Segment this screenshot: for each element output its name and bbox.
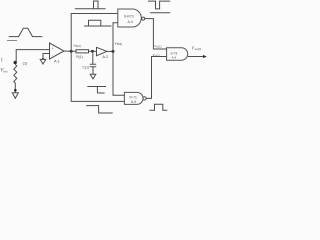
svg-text:-: - bbox=[52, 52, 54, 57]
wire comparator lower input to ground bbox=[43, 54, 50, 59]
waveform annotation (step down, below G2 lower input) bbox=[86, 106, 113, 113]
svg-text:B(1): B(1) bbox=[76, 44, 81, 48]
capacitor C(1) bbox=[92, 51, 94, 64]
waveform annotation vB1 (narrow pulse, top) bbox=[75, 1, 106, 9]
nand gate G3 (output) bbox=[167, 48, 188, 60]
label A-2 bbox=[103, 55, 109, 59]
waveform annotation G2 output (step up, bottom right) bbox=[150, 104, 168, 110]
op-amp A-1 bbox=[50, 43, 65, 59]
svg-text:C(1): C(1) bbox=[83, 66, 90, 70]
ground (capacitor) bbox=[90, 74, 96, 79]
svg-text:B(2): B(2) bbox=[117, 42, 122, 46]
node B2a (R-C junction) bbox=[91, 50, 94, 53]
label C(1) bbox=[83, 66, 90, 70]
svg-text:R-71: R-71 bbox=[130, 95, 137, 99]
wire A-2 output to node B2 bbox=[107, 50, 113, 52]
svg-text:o(1): o(1) bbox=[157, 45, 162, 49]
label vo(2) bbox=[153, 53, 160, 58]
waveform annotation input trapezoid bbox=[7, 28, 42, 40]
label vB(1) bbox=[74, 43, 81, 48]
buffer A-2 bbox=[97, 47, 107, 55]
node 1 terminal dot bbox=[14, 61, 17, 64]
wire G1 output to gate G3 upper input bbox=[145, 19, 167, 49]
label Vtest bbox=[0, 69, 8, 74]
svg-text:out(t): out(t) bbox=[195, 47, 202, 51]
waveform annotation G1 output (notch, top right) bbox=[148, 1, 170, 9]
ground (input) bbox=[12, 92, 18, 99]
resistor Rin zigzag bbox=[14, 64, 17, 89]
wire G2 output to gate G3 lower input bbox=[146, 57, 166, 99]
label A-1 bbox=[54, 59, 60, 63]
label vo(1) bbox=[155, 44, 162, 49]
label vB(2) bbox=[115, 41, 122, 46]
svg-text:A-2: A-2 bbox=[103, 55, 109, 59]
svg-text:test: test bbox=[3, 70, 7, 74]
ground terminal dot bbox=[14, 89, 17, 92]
waveform annotation (pulse, above G1 lower input) bbox=[84, 20, 112, 26]
svg-text:A-5: A-5 bbox=[131, 100, 136, 104]
nand gate G1 bbox=[118, 9, 145, 27]
nand gate G2 bbox=[124, 92, 146, 104]
wire stub at left edge (Vtest terminal) bbox=[1, 58, 3, 62]
svg-text:(1): (1) bbox=[23, 60, 29, 65]
svg-text:S-R73: S-R73 bbox=[124, 14, 134, 18]
node B2 bbox=[112, 50, 115, 53]
wire node B2 up to gate G1 lower input bbox=[113, 23, 118, 52]
svg-text:o(2): o(2) bbox=[155, 54, 160, 58]
label Vout bbox=[192, 45, 202, 51]
resistor R(1) bbox=[73, 50, 93, 52]
waveform annotation (step down, above G2 upper input) bbox=[87, 87, 106, 94]
wire node B2 down to gate G2 upper input bbox=[113, 51, 124, 95]
svg-text:A-4: A-4 bbox=[128, 20, 133, 24]
label R(1) bbox=[76, 55, 83, 59]
node label (1) bbox=[23, 60, 29, 65]
node B1 bbox=[70, 50, 73, 53]
wire junction to A-2 bbox=[94, 50, 97, 52]
svg-text:R(1): R(1) bbox=[76, 55, 83, 59]
wire input riser to comparator bbox=[16, 50, 49, 62]
wire node B1 up to gate G1 (feedback rail) bbox=[71, 14, 118, 52]
wire node B1 down to gate G2 lower input bbox=[71, 51, 124, 101]
svg-text:+: + bbox=[51, 46, 53, 50]
svg-text:A-6: A-6 bbox=[172, 56, 177, 60]
ground (A-1 input) bbox=[42, 58, 44, 60]
wire A-1 output to node B1 bbox=[64, 50, 71, 52]
wire output with arrow bbox=[188, 56, 203, 58]
svg-text:A-1: A-1 bbox=[54, 59, 60, 63]
